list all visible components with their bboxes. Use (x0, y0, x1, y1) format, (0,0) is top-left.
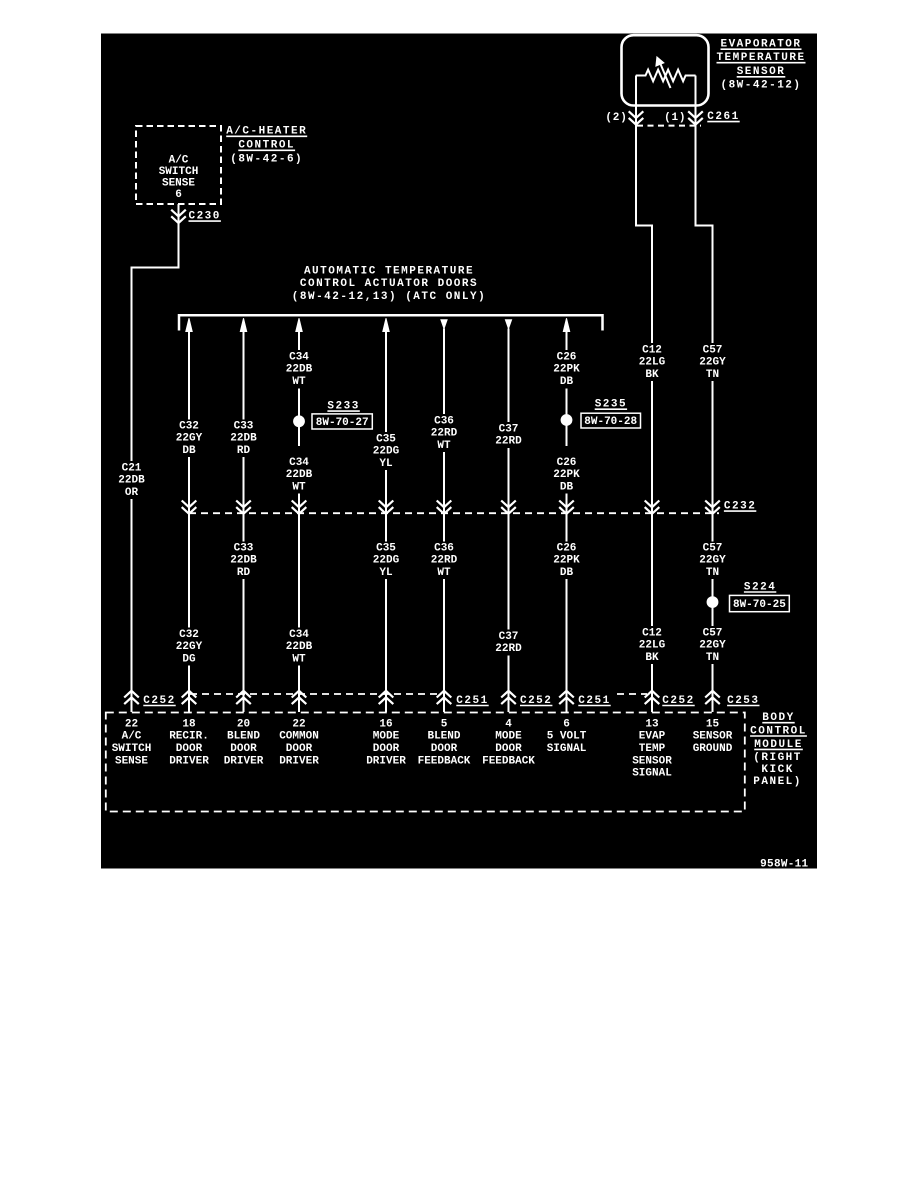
svg-text:C34: C34 (289, 629, 309, 641)
A/C-heater control box (dashed) (136, 126, 221, 204)
wire C12 below C232 (651, 514, 653, 626)
pin label (1) (664, 112, 686, 124)
connector C261 dashed mating line (637, 125, 701, 127)
svg-text:(8W-42-12,13) (ATC ONLY): (8W-42-12,13) (ATC ONLY) (292, 291, 486, 303)
connector chevron pin 6 (559, 691, 574, 704)
svg-text:958W-11: 958W-11 (760, 858, 808, 870)
svg-text:8W-70-25: 8W-70-25 (733, 599, 786, 611)
svg-text:WT: WT (292, 481, 306, 493)
svg-text:WT: WT (437, 440, 451, 452)
svg-text:DB: DB (560, 376, 574, 388)
svg-text:22DB: 22DB (230, 555, 257, 567)
svg-text:(8W-42-12): (8W-42-12) (720, 79, 801, 91)
connector C232 at wire C36 (437, 501, 452, 514)
BCM pin text at x=566.5 (547, 718, 587, 755)
label C36 22RD WT (upper) (431, 415, 458, 451)
svg-text:DRIVER: DRIVER (279, 755, 319, 767)
label C251 (5 volt signal) (578, 695, 610, 707)
connector chevron pin 20 (236, 691, 251, 704)
svg-text:C34: C34 (289, 351, 309, 363)
svg-text:SIGNAL: SIGNAL (547, 743, 587, 755)
svg-text:22DB: 22DB (230, 433, 257, 445)
svg-text:DRIVER: DRIVER (224, 755, 264, 767)
svg-text:22RD: 22RD (431, 428, 458, 440)
evaporator temperature sensor label (716, 39, 805, 92)
svg-text:22DB: 22DB (286, 469, 313, 481)
svg-text:A/C: A/C (169, 155, 189, 167)
svg-text:22GY: 22GY (699, 640, 726, 652)
label C21 22DB OR (118, 462, 145, 498)
svg-text:22GY: 22GY (699, 357, 726, 369)
wire C34 above splice (298, 389, 300, 417)
wire C35 to C232 (385, 470, 387, 513)
svg-text:8W-70-27: 8W-70-27 (316, 417, 369, 429)
wire sensor pin 2 lead (635, 76, 637, 125)
BCM pin text at x=299 (279, 718, 319, 767)
svg-text:TN: TN (706, 369, 719, 381)
svg-text:FEEDBACK: FEEDBACK (482, 755, 535, 767)
wire C57 to BCM (712, 664, 714, 712)
svg-text:C12: C12 (642, 627, 662, 639)
svg-text:22GY: 22GY (176, 433, 203, 445)
svg-text:C26: C26 (557, 457, 577, 469)
svg-text:SIGNAL: SIGNAL (632, 768, 672, 780)
callout box 8W-70-27 (312, 414, 372, 429)
svg-text:C12: C12 (642, 344, 662, 356)
wire C35 lower run (385, 579, 387, 712)
BCM pin text at x=189 (169, 718, 209, 767)
actuator doors bus bracket (179, 315, 603, 330)
BCM pin text at x=508.5 (482, 718, 535, 767)
wire C37 to BCM (508, 656, 510, 713)
label C232 (724, 501, 756, 513)
svg-text:KICK: KICK (761, 764, 793, 776)
label C251 (blend door feedback) (456, 695, 488, 707)
svg-text:(8W-42-6): (8W-42-6) (230, 153, 303, 165)
connector chevron pin 5 (437, 691, 452, 704)
arrow up wire C32 (186, 318, 192, 331)
svg-text:TEMP: TEMP (639, 743, 666, 755)
diagram number 958W-11 (760, 858, 808, 870)
svg-text:C36: C36 (434, 415, 454, 427)
svg-text:C35: C35 (376, 433, 396, 445)
body control module label (750, 712, 807, 788)
svg-text:MODE: MODE (373, 731, 400, 743)
svg-text:(1): (1) (664, 112, 686, 124)
label C252 (A/C switch sense) (143, 695, 175, 707)
BCM pin text at x=386 (366, 718, 406, 767)
label C34 22DB WT (lower) (286, 629, 313, 665)
svg-text:15: 15 (706, 718, 720, 730)
svg-text:CONTROL ACTUATOR DOORS: CONTROL ACTUATOR DOORS (300, 278, 478, 290)
svg-text:SENSE: SENSE (115, 755, 148, 767)
svg-text:C26: C26 (557, 542, 577, 554)
svg-text:PANEL): PANEL) (753, 776, 802, 788)
wire C34 to C232 (298, 494, 300, 514)
A/C switch sense pin text (159, 155, 199, 202)
svg-text:RECIR.: RECIR. (169, 731, 209, 743)
wire C57 below splice (712, 608, 714, 626)
svg-text:5 VOLT: 5 VOLT (547, 731, 587, 743)
svg-text:GROUND: GROUND (693, 743, 733, 755)
label C34 22DB WT (top) (286, 351, 313, 387)
svg-text:C57: C57 (703, 542, 723, 554)
svg-text:22DB: 22DB (286, 641, 313, 653)
label C57 22GY TN (middle) (699, 542, 726, 578)
arrow down wire C36 (441, 320, 447, 329)
svg-text:C57: C57 (703, 627, 723, 639)
svg-text:DOOR: DOOR (431, 743, 458, 755)
wire C32 to BCM (188, 666, 190, 713)
wire C57 to splice S224 (712, 579, 714, 597)
wire C26 stub below C232 (566, 514, 568, 542)
svg-text:WT: WT (292, 653, 306, 665)
heading automatic temperature control actuator doors (292, 265, 486, 303)
connector chevron pin 22 (124, 691, 139, 704)
connector chevron pin 13 (645, 691, 660, 704)
svg-text:SENSOR: SENSOR (632, 755, 672, 767)
wire C21 22DB OR upper run (132, 223, 179, 461)
svg-text:6: 6 (563, 718, 570, 730)
wire C34 upper (298, 332, 300, 351)
svg-text:22PK: 22PK (553, 469, 580, 481)
svg-text:DB: DB (560, 481, 574, 493)
evaporator temperature sensor body (622, 35, 709, 105)
label C12 22LG BK (upper) (639, 344, 666, 380)
connector C230 (171, 210, 186, 223)
label C37 22RD (lower) (495, 631, 522, 655)
wire C12 mid run (651, 381, 653, 513)
svg-text:BK: BK (645, 652, 659, 664)
svg-text:MODE: MODE (495, 731, 522, 743)
svg-text:22GY: 22GY (176, 641, 203, 653)
svg-text:C35: C35 (376, 542, 396, 554)
wire C33 to C232 (243, 457, 245, 513)
wire C32 below C232 (188, 514, 190, 628)
label C57 22GY TN (upper) (699, 344, 726, 380)
svg-text:DOOR: DOOR (230, 743, 257, 755)
arrow up wire C34 (296, 318, 302, 331)
wire C26 to C232 (566, 494, 568, 514)
connector C232 at wire C34 (292, 501, 307, 514)
arrow up wire C35 (383, 318, 389, 331)
connector chevron pin 15 (705, 691, 720, 704)
svg-text:C26: C26 (557, 351, 577, 363)
svg-text:(RIGHT: (RIGHT (753, 752, 802, 764)
wire C12 22LG BK upper run (636, 125, 652, 343)
wire C33 upper (243, 332, 245, 420)
label C33 22DB RD (upper) (230, 420, 257, 456)
arrow up wire C33 (240, 318, 246, 331)
svg-text:YL: YL (379, 458, 393, 470)
svg-text:22LG: 22LG (639, 357, 666, 369)
label C57 22GY TN (lower) (699, 627, 726, 663)
svg-text:DB: DB (182, 445, 196, 457)
svg-text:22RD: 22RD (495, 643, 522, 655)
svg-text:DOOR: DOOR (495, 743, 522, 755)
svg-text:TN: TN (706, 567, 719, 579)
wire C36 upper (443, 329, 445, 415)
label S233 (327, 401, 359, 413)
connector row dashed mating line segment B (617, 693, 647, 695)
svg-text:22PK: 22PK (553, 364, 580, 376)
wire C26 upper (566, 332, 568, 351)
svg-text:8W-70-28: 8W-70-28 (584, 416, 637, 428)
label C253 (sensor ground) (727, 695, 759, 707)
label C230 (188, 211, 220, 223)
svg-text:20: 20 (237, 718, 250, 730)
wire C36 stub below C232 (443, 514, 445, 542)
connector C232 at wire C33 (236, 501, 251, 514)
svg-text:DRIVER: DRIVER (366, 755, 406, 767)
svg-text:22: 22 (125, 718, 138, 730)
svg-text:22GY: 22GY (699, 555, 726, 567)
connector chevron pin 22 common (292, 691, 307, 704)
BCM pin text at x=131.5 (112, 718, 152, 767)
connector row dashed mating line segment A (190, 693, 441, 695)
label C26 22PK DB (below splice) (553, 457, 580, 493)
svg-text:C33: C33 (234, 420, 254, 432)
svg-text:22RD: 22RD (495, 436, 522, 448)
callout box 8W-70-25 (730, 595, 790, 611)
svg-text:RD: RD (237, 445, 251, 457)
label C26 22PK DB (middle) (553, 542, 580, 578)
label C261 (707, 111, 739, 123)
svg-text:SWITCH: SWITCH (112, 743, 152, 755)
svg-text:22DG: 22DG (373, 555, 400, 567)
svg-text:AUTOMATIC TEMPERATURE: AUTOMATIC TEMPERATURE (304, 265, 474, 277)
svg-text:C34: C34 (289, 457, 309, 469)
BCM pin text at x=652 (632, 718, 672, 779)
svg-text:RD: RD (237, 567, 251, 579)
svg-text:SENSE: SENSE (162, 178, 195, 190)
wire C36 to C232 (443, 452, 445, 513)
svg-text:22LG: 22LG (639, 640, 666, 652)
svg-text:C21: C21 (122, 462, 142, 474)
label C252 (evap temp) (662, 695, 694, 707)
wire C33 lower run (243, 579, 245, 712)
arrow up wire C26 (563, 318, 569, 331)
connector C232 at wire C35 (379, 501, 394, 514)
svg-text:DOOR: DOOR (176, 743, 203, 755)
svg-text:EVAP: EVAP (639, 731, 666, 743)
svg-text:BLEND: BLEND (427, 731, 460, 743)
svg-text:SWITCH: SWITCH (159, 166, 199, 178)
wire C35 upper (385, 332, 387, 433)
wire C36 lower run (443, 579, 445, 712)
wire C57 22GY TN upper run (696, 125, 713, 343)
label C33 22DB RD (middle) (230, 542, 257, 578)
svg-text:YL: YL (379, 567, 393, 579)
svg-text:TN: TN (706, 652, 719, 664)
pin label (2) (605, 112, 627, 124)
label C252 (mode door feedback) (520, 695, 552, 707)
svg-text:A/C: A/C (122, 731, 142, 743)
svg-text:SENSOR: SENSOR (693, 731, 733, 743)
splice S233 (293, 415, 305, 427)
A/C-heater control label (226, 126, 307, 166)
svg-text:5: 5 (441, 718, 448, 730)
body control module box (dashed) (106, 713, 745, 812)
connector chevron pin 18 (182, 691, 197, 704)
label C12 22LG BK (lower) (639, 627, 666, 663)
wire C37 upper (508, 329, 510, 423)
thermistor resistor element (636, 70, 696, 82)
svg-text:COMMON: COMMON (279, 731, 319, 743)
label C32 22GY DG (lower) (176, 629, 203, 665)
label S235 (595, 399, 627, 411)
connector C232 at wire C12 (645, 501, 660, 514)
svg-text:18: 18 (182, 718, 196, 730)
svg-text:C36: C36 (434, 542, 454, 554)
svg-text:DOOR: DOOR (286, 743, 313, 755)
wire C34 to BCM (298, 666, 300, 713)
thermistor arrow (656, 57, 671, 88)
connector chevron pin 4 (501, 691, 516, 704)
connector chevron pin 16 (379, 691, 394, 704)
svg-text:OR: OR (125, 487, 139, 499)
svg-text:DRIVER: DRIVER (169, 755, 209, 767)
wire sensor pin 1 lead (695, 76, 697, 125)
svg-text:22DG: 22DG (373, 446, 400, 458)
wire C32 upper (188, 332, 190, 420)
BCM pin text at x=243.5 (224, 718, 264, 767)
svg-text:C32: C32 (179, 420, 199, 432)
svg-text:22RD: 22RD (431, 555, 458, 567)
wire C34 below splice (298, 427, 300, 446)
svg-text:C33: C33 (234, 542, 254, 554)
BCM pin text at x=444 (418, 718, 471, 767)
wire C57 mid run (712, 381, 714, 513)
svg-text:WT: WT (437, 567, 451, 579)
svg-text:22: 22 (292, 718, 305, 730)
label C32 22GY DB (176, 420, 203, 456)
svg-text:C37: C37 (499, 631, 519, 643)
svg-text:4: 4 (505, 718, 512, 730)
wire C37 to C232 (508, 448, 510, 513)
wire C26 lower run (566, 579, 568, 712)
svg-text:22PK: 22PK (553, 555, 580, 567)
wire C34 below C232 (298, 514, 300, 628)
svg-text:FEEDBACK: FEEDBACK (418, 755, 471, 767)
svg-text:BLEND: BLEND (227, 731, 260, 743)
wire C32 to C232 (188, 457, 190, 513)
svg-text:WT: WT (292, 376, 306, 388)
connector C232 at wire C32 (182, 501, 197, 514)
wire C37 below C232 (508, 514, 510, 630)
connector C261 pin 2 half (629, 111, 644, 124)
svg-text:13: 13 (645, 718, 659, 730)
connector C232 dashed mating line (189, 512, 719, 514)
connector C232 at wire C57 (705, 501, 720, 514)
BCM pin text at x=712.5 (693, 718, 733, 755)
wire C57 stub below C232 (712, 514, 714, 542)
svg-text:DB: DB (560, 567, 574, 579)
label C37 22RD (upper) (495, 423, 522, 447)
svg-text:DOOR: DOOR (373, 743, 400, 755)
svg-text:DG: DG (182, 653, 196, 665)
svg-text:22DB: 22DB (286, 364, 313, 376)
label C34 22DB WT (below splice) (286, 457, 313, 493)
splice S224 (707, 596, 719, 608)
svg-text:C57: C57 (703, 344, 723, 356)
label C36 22RD WT (middle) (431, 542, 458, 578)
arrow down wire C37 (505, 320, 511, 329)
label C35 22DG YL (middle) (373, 542, 400, 578)
svg-text:C37: C37 (499, 423, 519, 435)
label C35 22DG YL (upper) (373, 433, 400, 469)
callout box 8W-70-28 (581, 413, 641, 428)
svg-text:BK: BK (645, 369, 659, 381)
wire C26 above splice (566, 389, 568, 415)
wire C12 to BCM (651, 664, 653, 712)
connector C232 at wire C26 (559, 501, 574, 514)
splice S235 (561, 414, 573, 426)
wire C35 stub below C232 (385, 514, 387, 542)
label C26 22PK DB (top) (553, 351, 580, 387)
wire C26 below splice (566, 425, 568, 446)
svg-text:22DB: 22DB (118, 475, 145, 487)
svg-text:C32: C32 (179, 629, 199, 641)
wire from A/C-heater control (178, 204, 180, 223)
svg-text:6: 6 (175, 189, 182, 201)
label S224 (744, 581, 776, 593)
svg-text:16: 16 (379, 718, 392, 730)
connector C232 at wire C37 (501, 501, 516, 514)
black schematic canvas (101, 33, 818, 869)
svg-text:(2): (2) (605, 112, 627, 124)
connector C261 pin 1 half (688, 111, 703, 124)
wire C21 lower run (131, 499, 133, 712)
wire C33 stub below C232 (243, 514, 245, 542)
